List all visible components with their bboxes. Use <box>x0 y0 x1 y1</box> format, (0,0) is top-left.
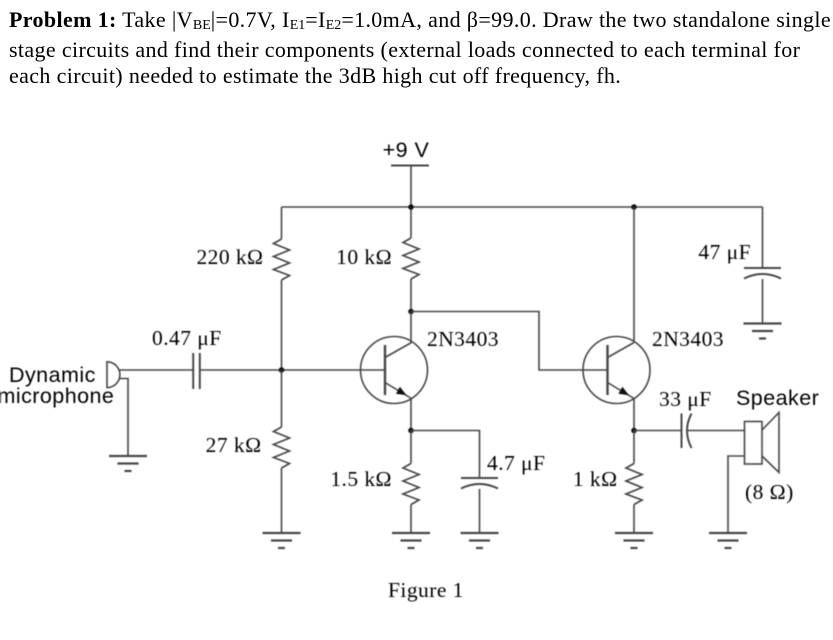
capacitor C4 47 uF <box>744 268 781 279</box>
node base B1 <box>279 367 285 373</box>
svg-text:4.7 μF: 4.7 μF <box>487 451 545 475</box>
svg-text:47 μF: 47 μF <box>698 240 751 264</box>
wire cap to speaker <box>688 430 745 432</box>
svg-text:1.5 kΩ: 1.5 kΩ <box>330 467 392 491</box>
label Q1 2N3403 <box>427 327 499 351</box>
capacitor C1 0.47 uF <box>193 353 200 389</box>
svg-text:33 μF: 33 μF <box>659 387 712 411</box>
ground under R5 <box>615 533 653 548</box>
label Dynamic microphone <box>0 363 114 408</box>
ground under C2 <box>461 533 499 548</box>
svg-text:10 kΩ: 10 kΩ <box>336 245 392 269</box>
wire interstage coupling <box>411 312 608 371</box>
resistor R5 1 kOhm <box>626 464 642 505</box>
node emitter E2 <box>631 428 637 434</box>
wire base node to 27k <box>281 370 283 427</box>
label Q2 2N3403 <box>652 327 724 351</box>
wire E1 to 1.5k <box>410 431 412 464</box>
wire supply stub <box>410 166 412 208</box>
speaker SPK1 <box>745 413 780 473</box>
label Speaker <box>736 386 819 410</box>
wire 1k to ground <box>633 505 635 534</box>
wire bypass cap to ground <box>479 489 481 533</box>
svg-text:Speaker: Speaker <box>736 386 819 410</box>
transistor Q1 2N3403 <box>361 337 428 404</box>
wire 1.5k to ground <box>410 505 412 534</box>
wire cap to base node <box>200 369 282 371</box>
wire Q1 collector <box>410 312 412 343</box>
svg-text:microphone: microphone <box>0 384 114 408</box>
transistor Q2 2N3403 <box>583 337 650 404</box>
wire Q1 base <box>282 369 386 371</box>
ground under speaker <box>709 533 747 548</box>
capacitor C2 4.7 uF <box>461 478 498 489</box>
resistor R1 220 kOhm <box>274 239 290 280</box>
wire E2 to output cap <box>634 430 682 432</box>
wire mic ground stub <box>119 379 128 457</box>
label speaker impedance (8 Ohm) <box>745 480 794 504</box>
svg-text:Figure 1: Figure 1 <box>388 578 464 602</box>
node emitter E1 <box>408 428 414 434</box>
wire 220k to base node <box>281 280 283 370</box>
label R4 27 kOhm <box>206 433 262 457</box>
svg-text:2N3403: 2N3403 <box>652 327 724 351</box>
label C3 33 uF <box>659 387 712 411</box>
wire 47uF to ground <box>762 279 764 324</box>
wire top rail <box>282 206 763 208</box>
node rail to Q2 collector <box>631 204 637 210</box>
wire Q2 collector <box>633 207 635 343</box>
wire Q2 emitter <box>633 399 635 431</box>
ground under R4 <box>263 533 301 548</box>
wire mic signal <box>119 369 193 371</box>
+9 V supply label <box>383 138 430 162</box>
capacitor C3 33 uF <box>682 414 692 449</box>
ground under R3 <box>392 533 430 548</box>
svg-text:27 kΩ: 27 kΩ <box>206 433 262 457</box>
label R5 1 kOhm <box>573 467 618 491</box>
svg-text:220 kΩ: 220 kΩ <box>196 245 263 269</box>
wire speaker return <box>728 456 745 533</box>
ground under microphone <box>109 456 147 471</box>
ground under C4 <box>744 324 782 339</box>
wire left branch top <box>281 207 283 239</box>
node supply junction <box>408 204 414 210</box>
node collector C1 <box>408 309 414 315</box>
wire 10k to collector node <box>410 279 412 312</box>
wire rail to 47uF <box>762 207 764 268</box>
+9 V supply bar <box>391 165 429 167</box>
resistor R2 10 kOhm <box>403 238 419 279</box>
wire E2 to 1k <box>633 431 635 464</box>
label C4 47 uF <box>698 240 751 264</box>
label Figure 1 <box>388 578 464 602</box>
label R3 1.5 kOhm <box>330 467 392 491</box>
resistor R3 1.5 kOhm <box>403 464 419 505</box>
wire 10k top <box>410 207 412 238</box>
resistor R4 27 kOhm <box>274 427 290 468</box>
svg-text:0.47 μF: 0.47 μF <box>152 326 222 350</box>
svg-text:1 kΩ: 1 kΩ <box>573 467 618 491</box>
label R1 220 kOhm <box>196 245 263 269</box>
wire 27k to ground <box>281 468 283 533</box>
label R2 10 kOhm <box>336 245 392 269</box>
label C1 0.47 uF <box>152 326 222 350</box>
wire Q1 emitter <box>410 399 412 431</box>
svg-text:(8 Ω): (8 Ω) <box>745 480 794 504</box>
svg-text:+9 V: +9 V <box>383 138 430 162</box>
svg-text:2N3403: 2N3403 <box>427 327 499 351</box>
label C2 4.7 uF <box>487 451 545 475</box>
wire E1 to bypass cap <box>411 431 480 479</box>
microphone MIC1 <box>107 361 120 389</box>
